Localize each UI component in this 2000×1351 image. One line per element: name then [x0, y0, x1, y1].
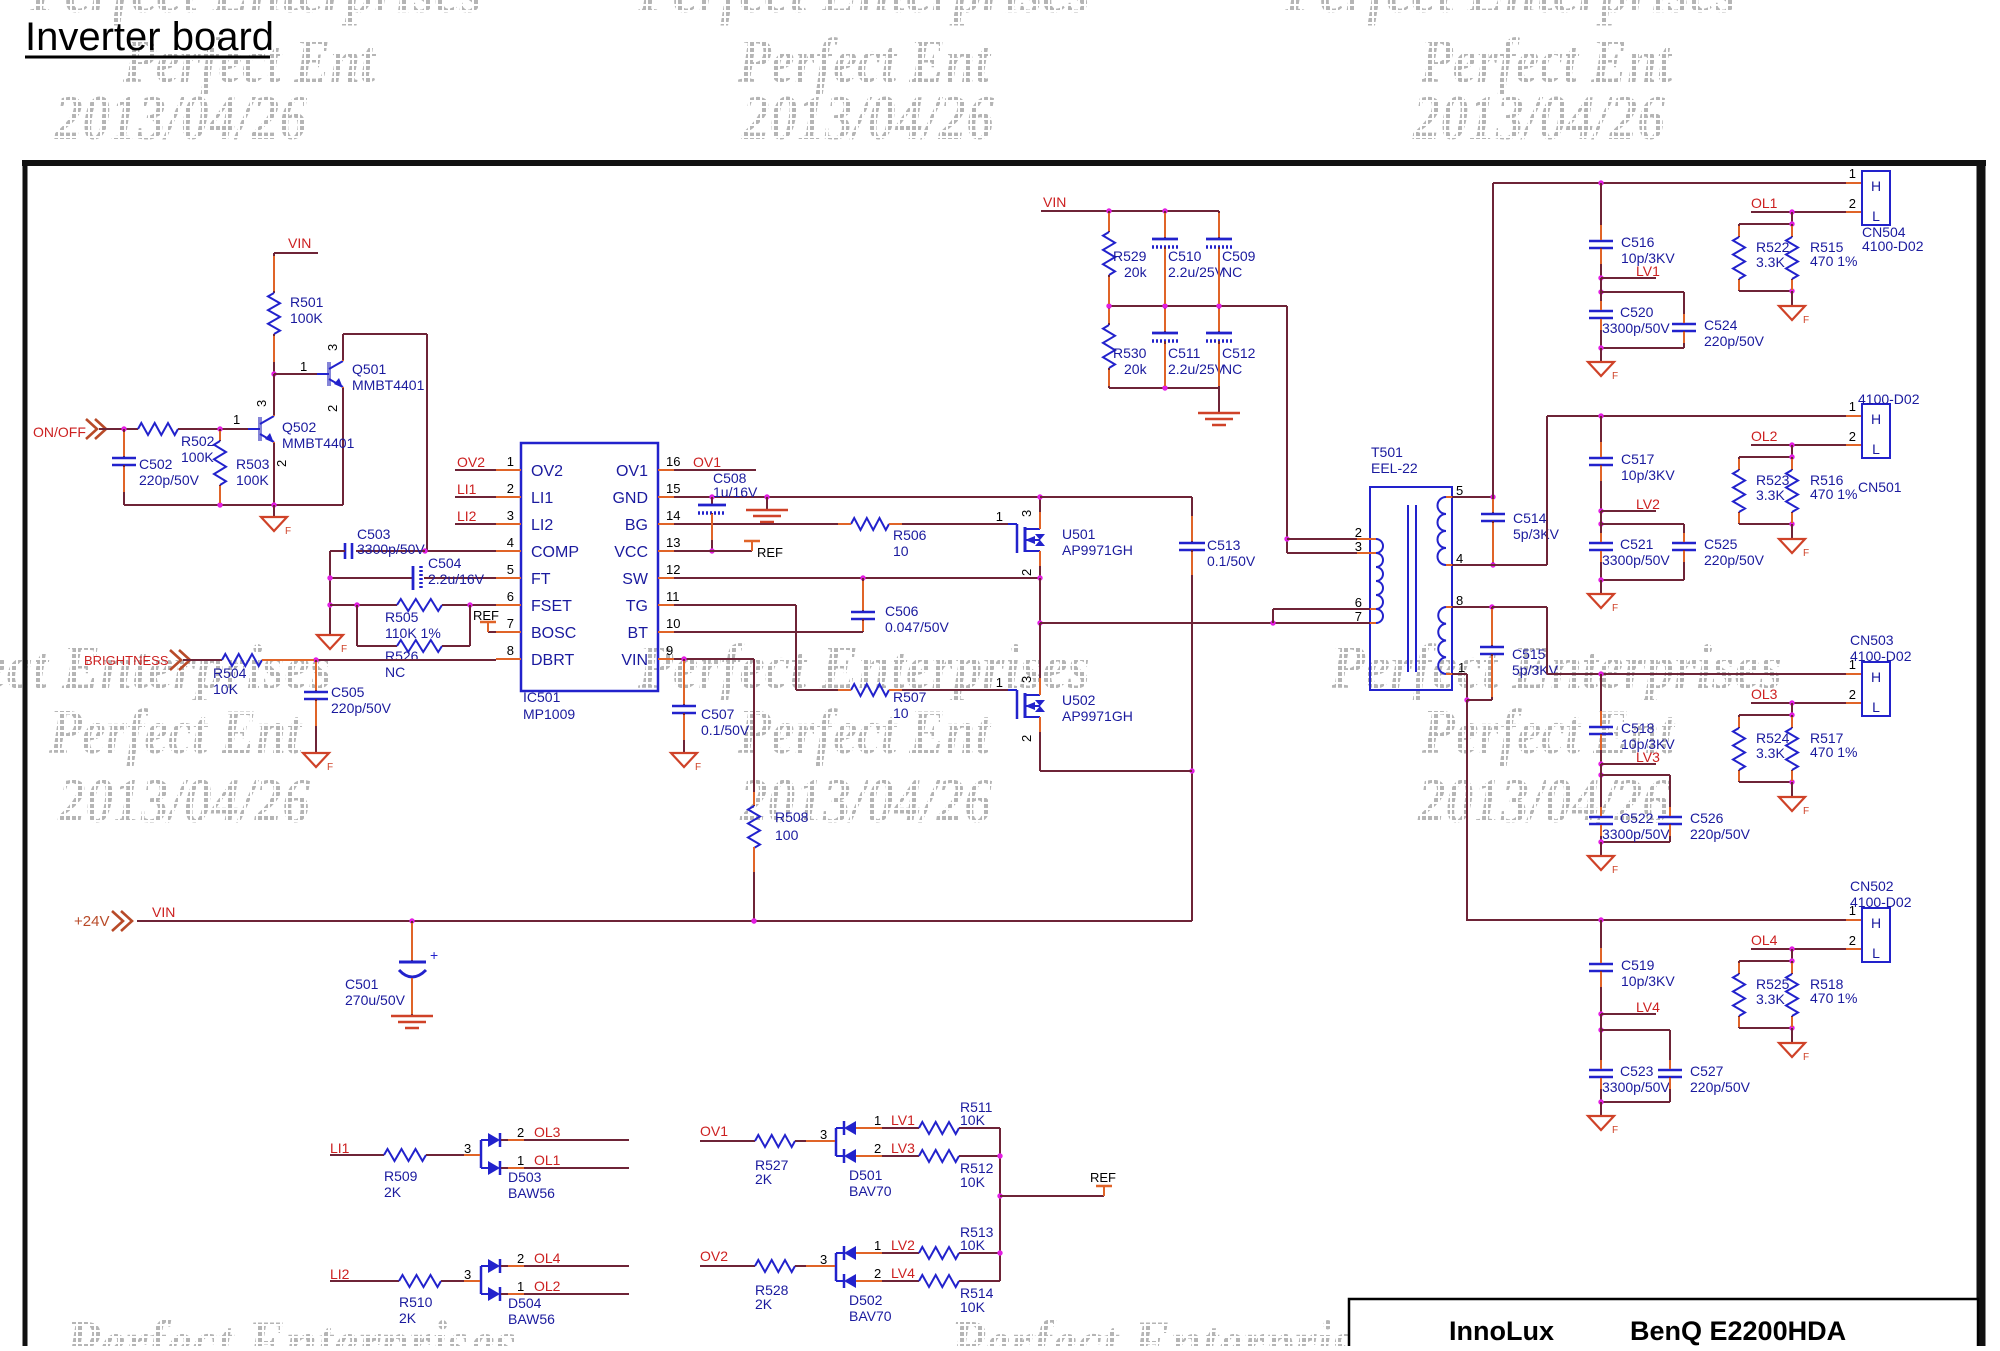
svg-text:0.047/50V: 0.047/50V: [885, 619, 949, 635]
svg-text:BT: BT: [628, 625, 649, 642]
svg-text:L: L: [1872, 699, 1880, 715]
svg-text:+: +: [430, 947, 438, 963]
svg-text:NC: NC: [1222, 264, 1242, 280]
svg-text:LV2: LV2: [891, 1237, 915, 1253]
svg-text:LV4: LV4: [1636, 999, 1660, 1015]
svg-text:2013/04/26: 2013/04/26: [54, 82, 307, 153]
svg-text:10: 10: [893, 705, 909, 721]
svg-text:6: 6: [507, 589, 514, 604]
svg-text:LV4: LV4: [891, 1265, 915, 1281]
svg-text:C516: C516: [1621, 234, 1655, 250]
svg-text:L: L: [1872, 945, 1880, 961]
svg-text:U502: U502: [1062, 692, 1096, 708]
svg-text:D504: D504: [508, 1295, 542, 1311]
svg-text:C519: C519: [1621, 957, 1655, 973]
svg-text:C507: C507: [701, 706, 735, 722]
svg-text:OL2: OL2: [1751, 428, 1778, 444]
svg-text:220p/50V: 220p/50V: [1690, 826, 1751, 842]
svg-text:F: F: [285, 526, 291, 537]
svg-text:5p/3KV: 5p/3KV: [1513, 526, 1560, 542]
svg-text:5p/3KV: 5p/3KV: [1512, 662, 1559, 678]
svg-text:3.3K: 3.3K: [1756, 745, 1785, 761]
svg-text:20k: 20k: [1124, 264, 1148, 280]
svg-text:C504: C504: [428, 555, 462, 571]
svg-text:C514: C514: [1513, 510, 1547, 526]
svg-text:Perfect Enterprises: Perfect Enterprises: [1284, 0, 1737, 26]
svg-text:3300p/50V: 3300p/50V: [357, 541, 425, 557]
svg-text:OL3: OL3: [534, 1124, 561, 1140]
svg-text:7: 7: [507, 616, 514, 631]
svg-text:COMP: COMP: [531, 544, 579, 561]
svg-text:H: H: [1871, 178, 1881, 194]
svg-text:2: 2: [274, 460, 289, 467]
svg-text:R501: R501: [290, 294, 324, 310]
svg-text:C502: C502: [139, 456, 173, 472]
svg-text:2: 2: [1849, 687, 1856, 702]
svg-text:R509: R509: [384, 1168, 418, 1184]
svg-text:11: 11: [666, 589, 680, 604]
svg-text:F: F: [341, 644, 347, 655]
svg-text:2K: 2K: [755, 1171, 773, 1187]
svg-text:1: 1: [517, 1153, 524, 1168]
svg-text:R502: R502: [181, 433, 215, 449]
svg-text:OV2: OV2: [700, 1248, 728, 1264]
svg-text:2: 2: [874, 1141, 881, 1156]
svg-text:BAV70: BAV70: [849, 1308, 892, 1324]
svg-text:470 1%: 470 1%: [1810, 253, 1857, 269]
svg-text:R522: R522: [1756, 239, 1790, 255]
svg-text:4: 4: [507, 535, 514, 550]
svg-text:C503: C503: [357, 526, 391, 542]
svg-text:Q502: Q502: [282, 419, 316, 435]
svg-text:H: H: [1871, 915, 1881, 931]
svg-text:LV3: LV3: [891, 1140, 915, 1156]
svg-text:BOSC: BOSC: [531, 625, 576, 642]
svg-text:LI2: LI2: [330, 1266, 350, 1282]
svg-text:4100-D02: 4100-D02: [1858, 391, 1920, 407]
svg-text:MMBT4401: MMBT4401: [352, 377, 425, 393]
svg-text:2: 2: [517, 1125, 524, 1140]
svg-text:TG: TG: [626, 598, 648, 615]
svg-text:R508: R508: [775, 809, 809, 825]
svg-text:FT: FT: [531, 571, 551, 588]
svg-text:2.2u/16V: 2.2u/16V: [428, 571, 485, 587]
svg-text:Inverter board: Inverter board: [25, 15, 274, 59]
svg-text:13: 13: [666, 535, 680, 550]
svg-text:C518: C518: [1621, 720, 1655, 736]
svg-text:3300p/50V: 3300p/50V: [1602, 552, 1670, 568]
svg-text:2013/04/26: 2013/04/26: [741, 82, 994, 153]
svg-text:15: 15: [666, 481, 680, 496]
svg-text:R505: R505: [385, 609, 419, 625]
svg-text:C501: C501: [345, 976, 379, 992]
svg-text:100K: 100K: [290, 310, 323, 326]
svg-text:6: 6: [1355, 595, 1362, 610]
svg-text:F: F: [1612, 865, 1618, 876]
svg-text:7: 7: [1355, 609, 1362, 624]
svg-text:2.2u/25V: 2.2u/25V: [1168, 361, 1225, 377]
svg-text:5: 5: [1456, 483, 1463, 498]
svg-text:D503: D503: [508, 1169, 542, 1185]
svg-text:R523: R523: [1756, 472, 1790, 488]
svg-text:3300p/50V: 3300p/50V: [1602, 320, 1670, 336]
svg-text:4: 4: [1456, 551, 1463, 566]
svg-text:C515: C515: [1512, 646, 1546, 662]
svg-text:C520: C520: [1620, 304, 1654, 320]
svg-text:2: 2: [1849, 196, 1856, 211]
svg-text:220p/50V: 220p/50V: [139, 472, 200, 488]
svg-text:3.3K: 3.3K: [1756, 487, 1785, 503]
svg-text:LV1: LV1: [1636, 263, 1660, 279]
svg-text:3: 3: [1019, 676, 1034, 683]
svg-text:2: 2: [517, 1251, 524, 1266]
svg-text:220p/50V: 220p/50V: [1704, 333, 1765, 349]
svg-text:220p/50V: 220p/50V: [1690, 1079, 1751, 1095]
svg-text:2: 2: [1019, 569, 1034, 576]
svg-text:8: 8: [1456, 593, 1463, 608]
svg-text:10K: 10K: [960, 1112, 986, 1128]
svg-text:OL1: OL1: [534, 1152, 561, 1168]
svg-text:CN503: CN503: [1850, 632, 1894, 648]
svg-text:3: 3: [464, 1141, 471, 1156]
svg-text:R530: R530: [1113, 345, 1147, 361]
svg-text:Perfect Ent: Perfect Ent: [737, 696, 992, 767]
svg-text:L: L: [1872, 208, 1880, 224]
svg-text:BenQ E2200HDA: BenQ E2200HDA: [1630, 1316, 1846, 1346]
svg-text:1: 1: [1849, 166, 1856, 181]
svg-text:BG: BG: [625, 517, 648, 534]
svg-text:REF: REF: [1090, 1170, 1116, 1185]
svg-text:2: 2: [325, 405, 340, 412]
svg-text:Perfect Enterprises: Perfect Enterprises: [949, 1307, 1402, 1346]
svg-text:F: F: [1612, 371, 1618, 382]
svg-text:AP9971GH: AP9971GH: [1062, 542, 1133, 558]
svg-text:C522: C522: [1620, 810, 1654, 826]
svg-text:F: F: [1803, 806, 1809, 817]
svg-text:R526: R526: [385, 648, 419, 664]
svg-text:CN501: CN501: [1858, 479, 1902, 495]
svg-text:2: 2: [874, 1266, 881, 1281]
svg-text:VCC: VCC: [614, 544, 648, 561]
svg-text:1: 1: [300, 359, 307, 374]
svg-text:3: 3: [1019, 510, 1034, 517]
svg-text:Q501: Q501: [352, 361, 386, 377]
svg-text:F: F: [1803, 1052, 1809, 1063]
svg-text:2K: 2K: [384, 1184, 402, 1200]
svg-text:CN502: CN502: [1850, 878, 1894, 894]
svg-text:F: F: [1612, 1125, 1618, 1136]
svg-text:10p/3KV: 10p/3KV: [1621, 467, 1675, 483]
svg-text:3300p/50V: 3300p/50V: [1602, 1079, 1670, 1095]
svg-text:2: 2: [507, 481, 514, 496]
svg-text:2K: 2K: [399, 1310, 417, 1326]
svg-text:1: 1: [507, 454, 514, 469]
svg-text:L: L: [1872, 441, 1880, 457]
svg-text:IC501: IC501: [523, 689, 561, 705]
svg-text:D502: D502: [849, 1292, 883, 1308]
svg-text:100K: 100K: [181, 449, 214, 465]
svg-text:U501: U501: [1062, 526, 1096, 542]
svg-text:InnoLux: InnoLux: [1449, 1316, 1554, 1346]
svg-text:3: 3: [254, 400, 269, 407]
svg-text:3: 3: [820, 1252, 827, 1267]
svg-text:SW: SW: [622, 571, 649, 588]
svg-text:F: F: [1612, 603, 1618, 614]
svg-text:1: 1: [1458, 660, 1465, 675]
svg-text:F: F: [1803, 315, 1809, 326]
svg-text:5: 5: [507, 562, 514, 577]
svg-text:LV3: LV3: [1636, 749, 1660, 765]
svg-text:OV2: OV2: [531, 463, 563, 480]
svg-text:470 1%: 470 1%: [1810, 486, 1857, 502]
svg-text:4100-D02: 4100-D02: [1862, 238, 1924, 254]
svg-text:C510: C510: [1168, 248, 1202, 264]
svg-text:OL3: OL3: [1751, 686, 1778, 702]
svg-text:C521: C521: [1620, 536, 1654, 552]
svg-text:3: 3: [325, 344, 340, 351]
svg-text:4100-D02: 4100-D02: [1850, 894, 1912, 910]
svg-text:GND: GND: [612, 490, 648, 507]
svg-text:1: 1: [517, 1279, 524, 1294]
svg-text:16: 16: [666, 454, 680, 469]
svg-text:VIN: VIN: [1043, 194, 1066, 210]
svg-text:LI1: LI1: [531, 490, 553, 507]
svg-text:C527: C527: [1690, 1063, 1724, 1079]
svg-text:C505: C505: [331, 684, 365, 700]
svg-text:3300p/50V: 3300p/50V: [1602, 826, 1670, 842]
svg-text:R510: R510: [399, 1294, 433, 1310]
svg-text:REF: REF: [757, 545, 783, 560]
svg-text:LV2: LV2: [1636, 496, 1660, 512]
svg-text:NC: NC: [385, 664, 405, 680]
svg-text:470 1%: 470 1%: [1810, 744, 1857, 760]
svg-text:270u/50V: 270u/50V: [345, 992, 406, 1008]
svg-text:20k: 20k: [1124, 361, 1148, 377]
svg-text:OV1: OV1: [700, 1123, 728, 1139]
svg-text:1: 1: [1849, 399, 1856, 414]
svg-text:9: 9: [666, 643, 673, 658]
svg-text:BAW56: BAW56: [508, 1185, 555, 1201]
svg-text:10: 10: [666, 616, 680, 631]
svg-text:Perfect Enterprises: Perfect Enterprises: [64, 1307, 517, 1346]
svg-text:2: 2: [1355, 525, 1362, 540]
svg-text:NC: NC: [1222, 361, 1242, 377]
svg-text:8: 8: [507, 643, 514, 658]
svg-text:1: 1: [874, 1238, 881, 1253]
svg-text:H: H: [1871, 411, 1881, 427]
svg-text:AP9971GH: AP9971GH: [1062, 708, 1133, 724]
svg-text:3: 3: [820, 1127, 827, 1142]
svg-text:MP1009: MP1009: [523, 706, 575, 722]
svg-text:F: F: [695, 762, 701, 773]
svg-text:2: 2: [1849, 933, 1856, 948]
svg-text:10K: 10K: [960, 1174, 986, 1190]
svg-text:FSET: FSET: [531, 598, 572, 615]
svg-text:100: 100: [775, 827, 799, 843]
svg-text:D501: D501: [849, 1167, 883, 1183]
svg-text:R524: R524: [1756, 730, 1790, 746]
svg-text:2.2u/25V: 2.2u/25V: [1168, 264, 1225, 280]
svg-text:+24V: +24V: [74, 913, 109, 930]
svg-text:DBRT: DBRT: [531, 652, 574, 669]
svg-text:R504: R504: [213, 665, 247, 681]
svg-text:10K: 10K: [213, 681, 239, 697]
svg-text:14: 14: [666, 508, 680, 523]
svg-text:0.1/50V: 0.1/50V: [1207, 553, 1256, 569]
svg-text:10: 10: [893, 543, 909, 559]
svg-text:100K: 100K: [236, 472, 269, 488]
svg-text:F: F: [1803, 548, 1809, 559]
svg-text:C512: C512: [1222, 345, 1256, 361]
svg-text:OV2: OV2: [457, 454, 485, 470]
svg-text:2: 2: [1019, 735, 1034, 742]
svg-text:1: 1: [874, 1113, 881, 1128]
svg-text:C511: C511: [1168, 345, 1201, 361]
svg-text:3: 3: [507, 508, 514, 523]
svg-text:C517: C517: [1621, 451, 1655, 467]
svg-text:10p/3KV: 10p/3KV: [1621, 973, 1675, 989]
svg-text:2013/04/26: 2013/04/26: [57, 765, 310, 836]
svg-text:R507: R507: [893, 689, 927, 705]
svg-text:R529: R529: [1113, 248, 1147, 264]
svg-text:1: 1: [996, 675, 1003, 690]
svg-text:C524: C524: [1704, 317, 1738, 333]
svg-text:2K: 2K: [755, 1296, 773, 1312]
svg-text:2013/04/26: 2013/04/26: [739, 765, 992, 836]
svg-text:C506: C506: [885, 603, 919, 619]
svg-text:OL4: OL4: [534, 1250, 561, 1266]
svg-text:OV1: OV1: [616, 463, 648, 480]
svg-text:4100-D02: 4100-D02: [1850, 648, 1912, 664]
svg-text:VIN: VIN: [288, 235, 311, 251]
svg-text:OL2: OL2: [534, 1278, 561, 1294]
svg-text:ON/OFF: ON/OFF: [33, 424, 86, 440]
svg-text:1: 1: [233, 412, 240, 427]
svg-text:10K: 10K: [960, 1237, 986, 1253]
svg-text:220p/50V: 220p/50V: [1704, 552, 1765, 568]
svg-text:LI2: LI2: [457, 508, 477, 524]
svg-text:H: H: [1871, 669, 1881, 685]
svg-text:2: 2: [1849, 429, 1856, 444]
svg-text:BAW56: BAW56: [508, 1311, 555, 1327]
svg-text:110K 1%: 110K 1%: [385, 625, 441, 641]
svg-text:LI1: LI1: [330, 1140, 350, 1156]
svg-text:1u/16V: 1u/16V: [713, 484, 758, 500]
svg-text:T501: T501: [1371, 444, 1403, 460]
svg-text:3: 3: [1355, 539, 1362, 554]
svg-text:VIN: VIN: [152, 904, 175, 920]
svg-text:LI2: LI2: [531, 517, 553, 534]
svg-text:220p/50V: 220p/50V: [331, 700, 392, 716]
svg-text:C513: C513: [1207, 537, 1241, 553]
svg-text:OL1: OL1: [1751, 195, 1778, 211]
svg-text:R525: R525: [1756, 976, 1790, 992]
svg-text:BAV70: BAV70: [849, 1183, 892, 1199]
svg-text:LI1: LI1: [457, 481, 477, 497]
svg-text:R503: R503: [236, 456, 270, 472]
svg-text:F: F: [327, 762, 333, 773]
svg-text:1: 1: [996, 509, 1003, 524]
svg-text:VIN: VIN: [621, 652, 648, 669]
svg-text:MMBT4401: MMBT4401: [282, 435, 355, 451]
svg-text:Perfect Ent: Perfect Ent: [48, 696, 303, 767]
svg-text:C525: C525: [1704, 536, 1738, 552]
svg-text:3.3K: 3.3K: [1756, 254, 1785, 270]
svg-text:OL4: OL4: [1751, 932, 1778, 948]
svg-text:BRIGHTNESS: BRIGHTNESS: [84, 653, 169, 668]
svg-text:10K: 10K: [960, 1299, 986, 1315]
svg-text:3.3K: 3.3K: [1756, 991, 1785, 1007]
svg-text:C523: C523: [1620, 1063, 1654, 1079]
svg-text:C509: C509: [1222, 248, 1256, 264]
svg-text:2013/04/26: 2013/04/26: [1412, 82, 1665, 153]
svg-text:Perfect Enterprises: Perfect Enterprises: [637, 0, 1090, 26]
svg-text:0.1/50V: 0.1/50V: [701, 722, 750, 738]
svg-text:470 1%: 470 1%: [1810, 990, 1857, 1006]
svg-text:12: 12: [666, 562, 680, 577]
svg-text:C526: C526: [1690, 810, 1724, 826]
svg-text:R506: R506: [893, 527, 927, 543]
svg-text:LV1: LV1: [891, 1112, 915, 1128]
svg-text:REF: REF: [473, 608, 499, 623]
svg-text:OV1: OV1: [693, 454, 721, 470]
svg-text:3: 3: [464, 1267, 471, 1282]
svg-text:EEL-22: EEL-22: [1371, 460, 1418, 476]
